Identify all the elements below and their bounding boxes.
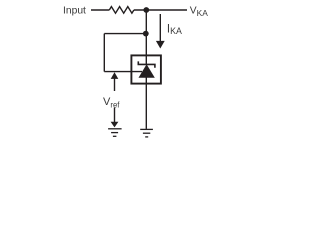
TL431 anode triangle (139, 64, 155, 78)
svg-text:Input: Input (63, 6, 86, 17)
wire cathode: main vertical from VKA node into box to cathode bar (145, 10, 147, 64)
TL431 cathode bar with bent ends (138, 61, 155, 67)
wire anode: from triangle base down to ground (145, 78, 147, 129)
current arrow IKA head (156, 41, 165, 49)
ground (left, under Vref arrow) (108, 129, 122, 137)
resistor (series input resistor) (109, 7, 134, 14)
voltage arrow Vref lower stem (114, 108, 116, 123)
svg-text:Vref: Vref (103, 96, 120, 109)
node junction at top (VKA node) (143, 7, 149, 13)
voltage arrow Vref upper head (pointing up at ref wire) (111, 72, 119, 79)
wire from resistor to VKA node (134, 9, 187, 11)
node junction feedback tap (143, 31, 149, 37)
svg-text:IKA: IKA (167, 23, 182, 36)
TL431 shunt regulator U1 package box (131, 55, 161, 83)
ground (right, under anode) (140, 129, 153, 137)
voltage arrow Vref upper stem (114, 78, 116, 91)
wire reference pin into box to triangle (104, 71, 142, 73)
current arrow IKA stem (159, 14, 161, 42)
svg-text:VKA: VKA (190, 6, 208, 18)
wire feedback: horizontal from junction to left leg (104, 33, 146, 35)
wire feedback: left vertical leg down to reference level (103, 34, 105, 72)
voltage arrow Vref lower head (pointing down at ground) (111, 122, 119, 128)
wire from Input to resistor (91, 9, 109, 11)
